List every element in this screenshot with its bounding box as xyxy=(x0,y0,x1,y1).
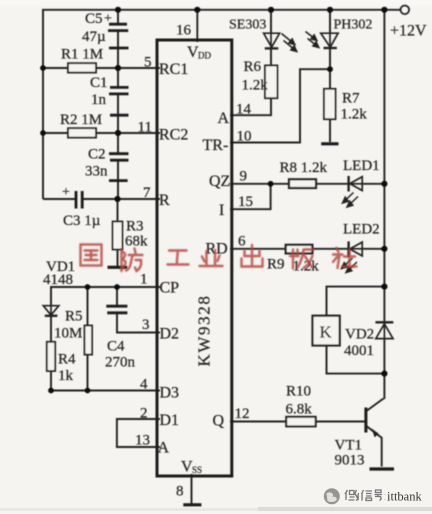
svg-text:47µ: 47µ xyxy=(82,29,106,45)
svg-text:C4: C4 xyxy=(107,339,125,355)
svg-text:LED2: LED2 xyxy=(343,222,380,238)
svg-text:TR-: TR- xyxy=(203,137,229,154)
svg-text:1.2k: 1.2k xyxy=(242,78,269,94)
svg-text:R1 1M: R1 1M xyxy=(61,47,103,63)
svg-text:KW9328: KW9328 xyxy=(195,295,214,367)
svg-text:10: 10 xyxy=(237,129,252,145)
svg-text:2: 2 xyxy=(140,406,148,422)
svg-text:9: 9 xyxy=(240,169,248,185)
svg-text:D2: D2 xyxy=(160,326,180,343)
svg-text:4001: 4001 xyxy=(344,343,374,359)
svg-text:8: 8 xyxy=(176,484,184,500)
svg-text:D3: D3 xyxy=(160,385,180,402)
svg-text:11: 11 xyxy=(138,120,152,136)
svg-text:R4: R4 xyxy=(58,352,76,368)
svg-text:PH302: PH302 xyxy=(334,18,373,33)
svg-text:QZ: QZ xyxy=(209,173,230,190)
svg-text:I: I xyxy=(219,202,224,219)
svg-text:+12V: +12V xyxy=(390,23,427,40)
svg-text:9013: 9013 xyxy=(335,453,365,469)
svg-text:270n: 270n xyxy=(105,355,136,371)
svg-text:RD: RD xyxy=(206,241,228,258)
svg-text:6: 6 xyxy=(238,234,246,250)
svg-text:SE303: SE303 xyxy=(229,18,266,33)
svg-text:R7: R7 xyxy=(342,91,360,107)
svg-text:C3 1µ: C3 1µ xyxy=(63,213,101,229)
svg-text:13: 13 xyxy=(135,433,150,449)
svg-text:16: 16 xyxy=(176,23,192,39)
svg-text:CP: CP xyxy=(160,280,180,297)
svg-text:4148: 4148 xyxy=(43,272,73,288)
svg-text:C5: C5 xyxy=(85,11,103,27)
svg-text:RC1: RC1 xyxy=(159,61,188,78)
svg-text:1: 1 xyxy=(140,272,148,288)
svg-text:5: 5 xyxy=(144,55,152,71)
svg-text:15: 15 xyxy=(238,194,253,210)
svg-text:12: 12 xyxy=(235,406,250,422)
svg-text:R9: R9 xyxy=(267,257,285,273)
svg-text:SS: SS xyxy=(192,465,202,475)
svg-text:1k: 1k xyxy=(58,368,74,384)
svg-text:+: + xyxy=(104,12,112,27)
svg-text:68k: 68k xyxy=(125,234,148,250)
svg-text:Q: Q xyxy=(213,413,225,430)
svg-text:LED1: LED1 xyxy=(343,158,380,174)
svg-text:VD2: VD2 xyxy=(345,327,374,343)
svg-text:1.2k: 1.2k xyxy=(341,107,368,123)
svg-text:3: 3 xyxy=(142,317,150,333)
svg-text:R5: R5 xyxy=(65,309,83,325)
svg-text:R10: R10 xyxy=(286,384,311,400)
svg-text:1n: 1n xyxy=(91,92,107,108)
svg-text:+: + xyxy=(62,185,70,200)
svg-text:A: A xyxy=(218,110,230,127)
svg-text:R8 1.2k: R8 1.2k xyxy=(280,160,328,176)
svg-text:33n: 33n xyxy=(85,164,108,180)
svg-text:C2: C2 xyxy=(88,147,106,163)
svg-text:R2 1M: R2 1M xyxy=(60,112,102,128)
svg-text:ittbank: ittbank xyxy=(387,490,422,504)
svg-text:D1: D1 xyxy=(160,412,180,429)
svg-text:R3: R3 xyxy=(126,219,144,235)
svg-text:R6: R6 xyxy=(244,59,262,75)
svg-text:10M: 10M xyxy=(54,326,82,342)
svg-text:K: K xyxy=(320,323,333,342)
svg-text:R: R xyxy=(159,192,170,209)
svg-text:DD: DD xyxy=(198,51,211,61)
svg-text:A: A xyxy=(158,440,170,457)
svg-text:VT1: VT1 xyxy=(335,438,363,454)
svg-text:6.8k: 6.8k xyxy=(286,402,313,418)
svg-text:4: 4 xyxy=(140,377,148,393)
svg-text:RC2: RC2 xyxy=(159,127,188,144)
svg-text:7: 7 xyxy=(143,185,151,201)
svg-text:14: 14 xyxy=(236,102,252,118)
svg-text:C1: C1 xyxy=(90,75,108,91)
